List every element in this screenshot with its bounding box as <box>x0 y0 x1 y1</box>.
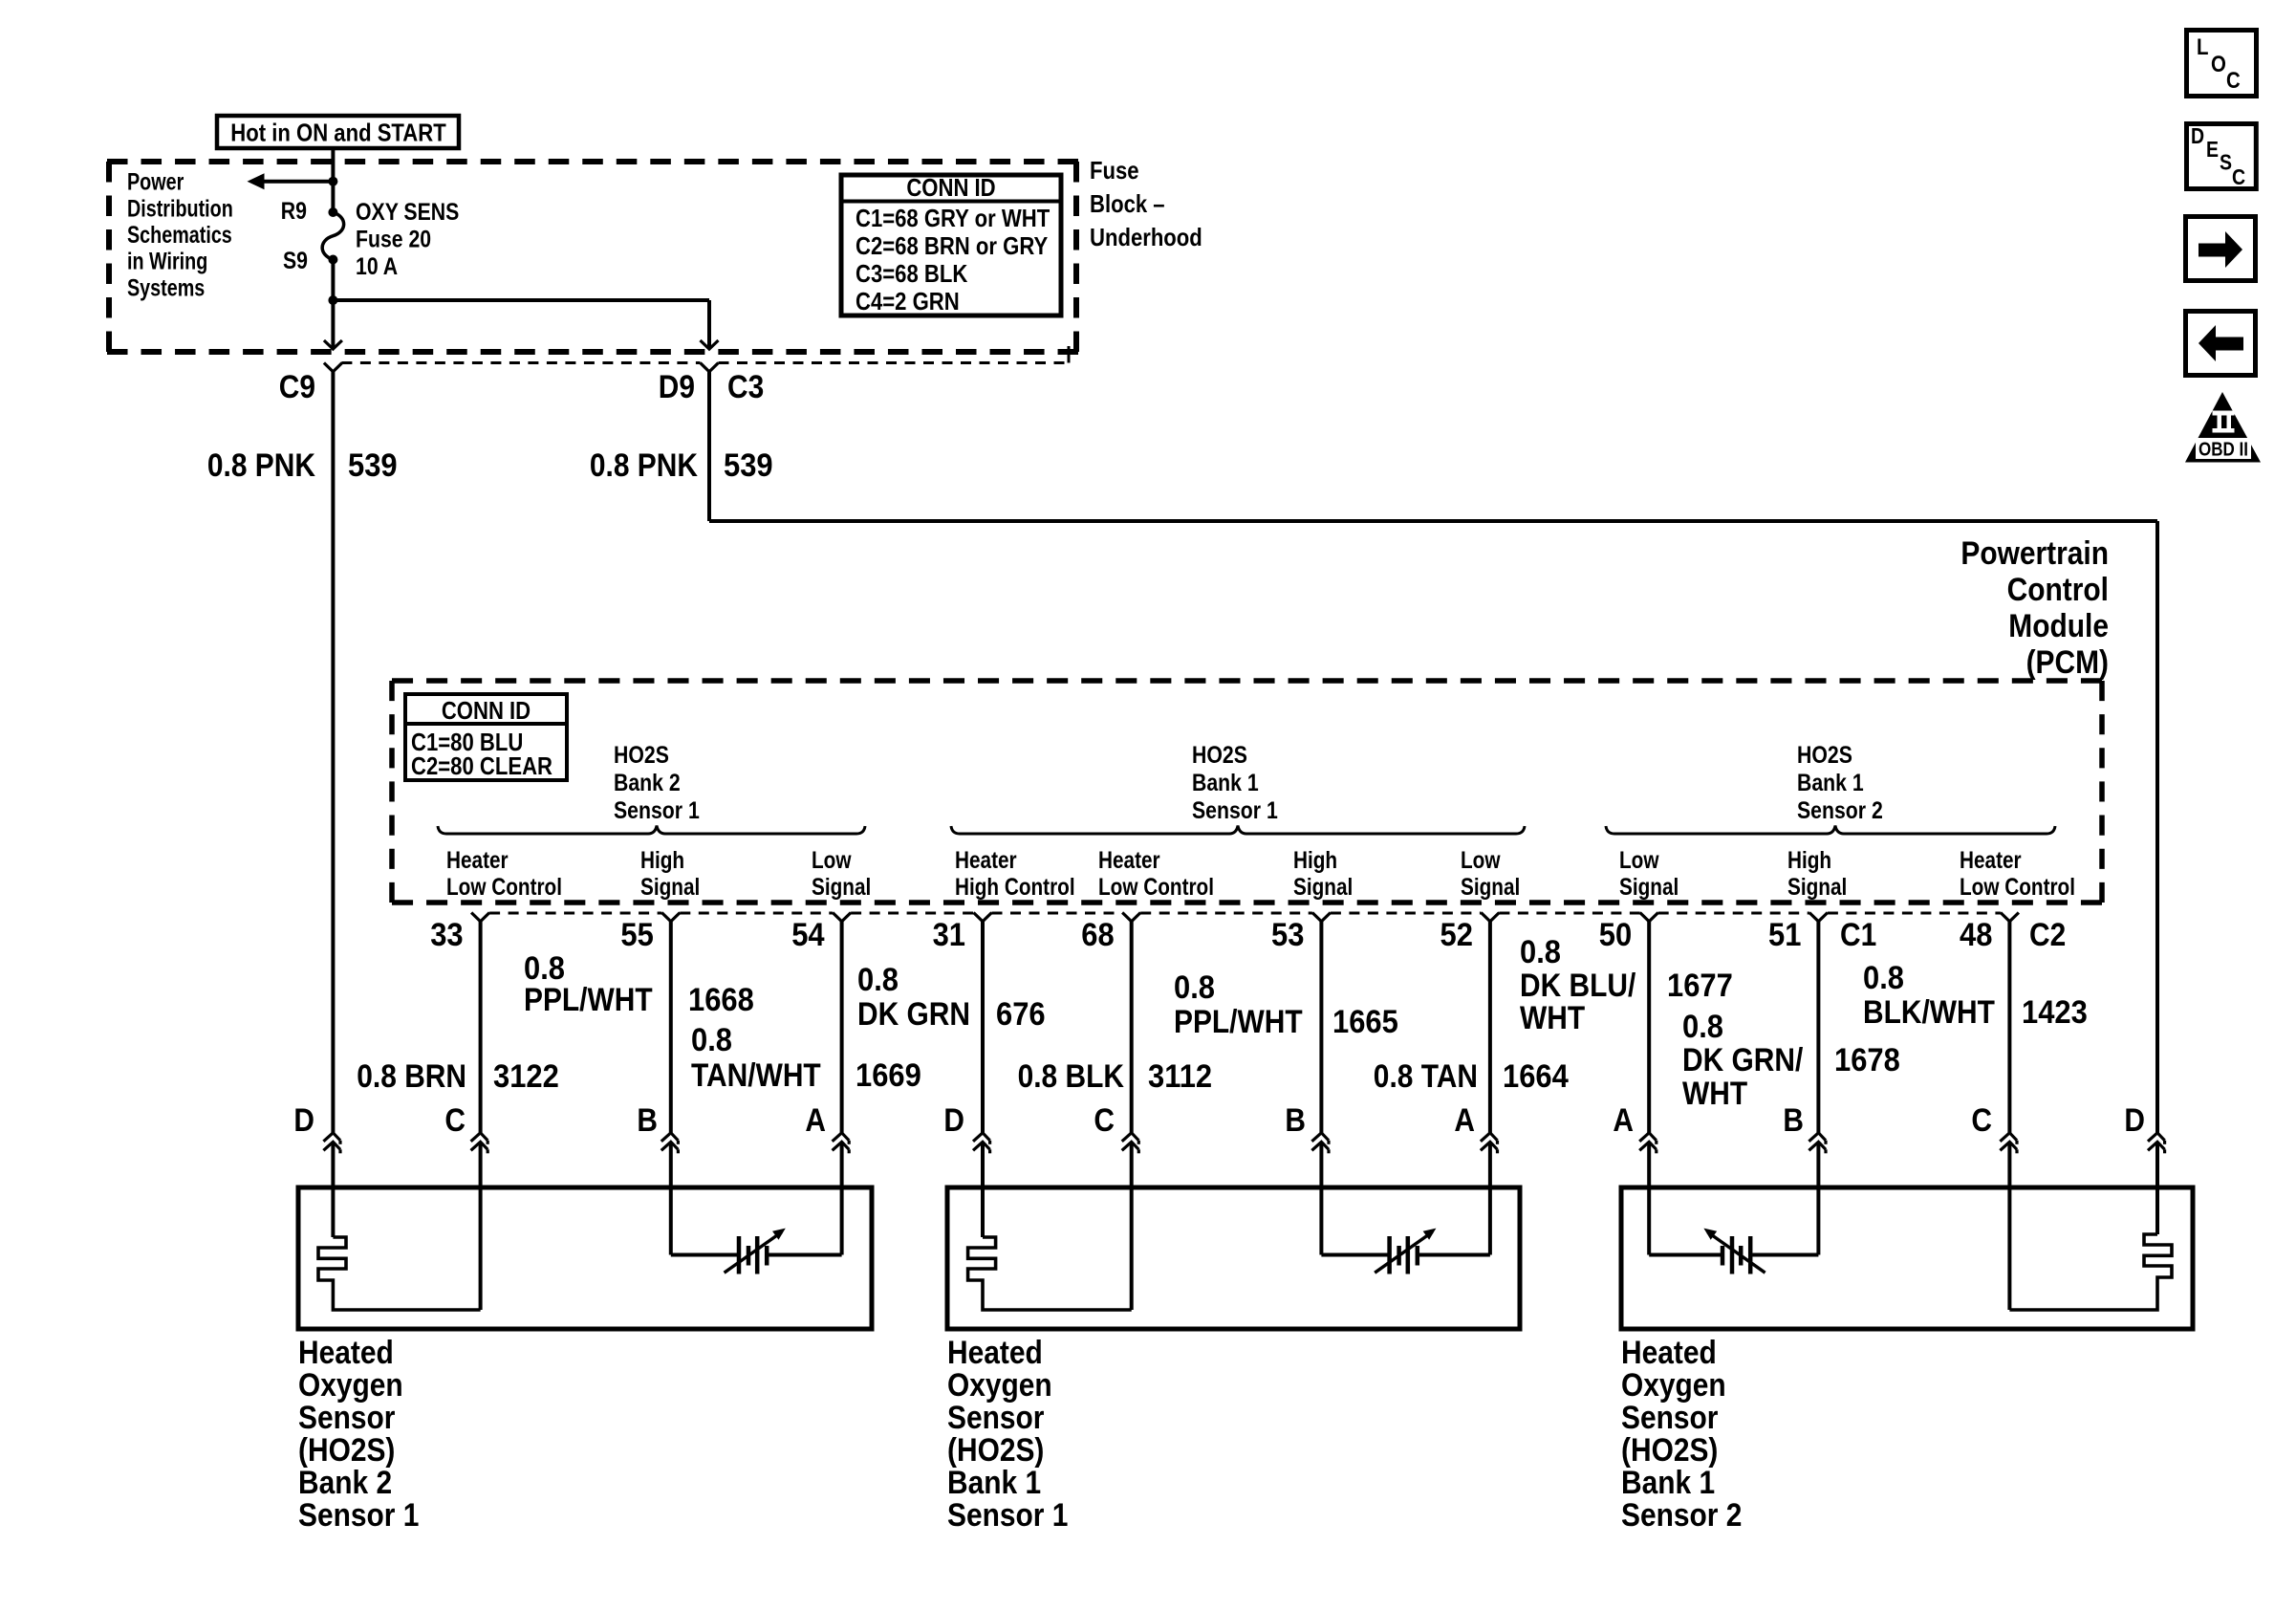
svg-text:C4=2 GRN: C4=2 GRN <box>856 287 960 316</box>
svg-text:Heated: Heated <box>947 1335 1043 1371</box>
svg-text:Heater: Heater <box>955 847 1017 874</box>
svg-text:Sensor 2: Sensor 2 <box>1797 797 1883 824</box>
svg-text:Bank 2: Bank 2 <box>298 1465 392 1501</box>
svg-text:HO2S: HO2S <box>1797 742 1852 769</box>
svg-text:C: C <box>1971 1102 1992 1139</box>
svg-text:53: 53 <box>1271 917 1304 953</box>
svg-text:WHT: WHT <box>1682 1076 1747 1112</box>
svg-text:Sensor 1: Sensor 1 <box>298 1497 419 1534</box>
svg-text:51: 51 <box>1768 917 1801 953</box>
svg-text:Heater: Heater <box>446 847 509 874</box>
svg-text:Bank 1: Bank 1 <box>1797 770 1864 796</box>
svg-text:Sensor 1: Sensor 1 <box>947 1497 1068 1534</box>
svg-text:0.8: 0.8 <box>857 962 899 998</box>
svg-text:Signal: Signal <box>640 874 700 901</box>
svg-text:D9: D9 <box>659 369 695 405</box>
svg-text:High: High <box>1787 847 1831 874</box>
svg-text:C: C <box>444 1102 466 1139</box>
svg-text:Low: Low <box>1461 847 1501 874</box>
svg-text:in Wiring: in Wiring <box>127 249 207 275</box>
svg-text:D: D <box>2124 1102 2145 1139</box>
svg-text:A: A <box>805 1102 826 1139</box>
svg-text:L: L <box>2197 34 2209 60</box>
svg-text:0.8 PNK: 0.8 PNK <box>207 447 315 484</box>
svg-text:Signal: Signal <box>1293 874 1353 901</box>
svg-text:3122: 3122 <box>493 1058 559 1095</box>
svg-text:1678: 1678 <box>1834 1042 1900 1078</box>
svg-text:Signal: Signal <box>1619 874 1679 901</box>
svg-text:C: C <box>2232 164 2245 189</box>
svg-text:Oxygen: Oxygen <box>298 1367 403 1404</box>
svg-text:OBD II: OBD II <box>2199 440 2248 461</box>
svg-text:C1=68 GRY or WHT: C1=68 GRY or WHT <box>856 204 1050 232</box>
svg-text:Sensor: Sensor <box>947 1400 1044 1436</box>
svg-text:Low Control: Low Control <box>446 874 562 901</box>
svg-text:539: 539 <box>348 447 398 484</box>
svg-text:B: B <box>637 1102 658 1139</box>
svg-text:DK GRN: DK GRN <box>857 996 970 1033</box>
svg-text:31: 31 <box>933 917 965 953</box>
svg-text:Bank 1: Bank 1 <box>1621 1465 1715 1501</box>
svg-text:0.8: 0.8 <box>691 1022 732 1058</box>
svg-text:54: 54 <box>791 917 824 953</box>
svg-text:Oxygen: Oxygen <box>1621 1367 1726 1404</box>
svg-text:52: 52 <box>1440 917 1473 953</box>
svg-text:Heated: Heated <box>1621 1335 1717 1371</box>
svg-text:Sensor 1: Sensor 1 <box>614 797 700 824</box>
svg-text:Block –: Block – <box>1090 189 1165 218</box>
svg-text:0.8: 0.8 <box>1682 1009 1723 1045</box>
svg-text:S: S <box>2220 150 2232 175</box>
svg-text:B: B <box>1285 1102 1306 1139</box>
svg-text:Sensor: Sensor <box>1621 1400 1718 1436</box>
svg-text:D: D <box>293 1102 314 1139</box>
svg-text:68: 68 <box>1081 917 1114 953</box>
svg-text:Signal: Signal <box>812 874 871 901</box>
svg-text:Low: Low <box>812 847 852 874</box>
svg-text:Sensor 1: Sensor 1 <box>1192 797 1278 824</box>
svg-text:High: High <box>1293 847 1337 874</box>
svg-text:0.8 BLK: 0.8 BLK <box>1018 1058 1125 1095</box>
svg-text:Fuse: Fuse <box>1090 156 1139 185</box>
svg-text:Signal: Signal <box>1461 874 1520 901</box>
svg-text:Low Control: Low Control <box>1098 874 1214 901</box>
svg-text:C9: C9 <box>279 369 315 405</box>
svg-text:C: C <box>1094 1102 1115 1139</box>
svg-text:B: B <box>1783 1102 1804 1139</box>
svg-text:Bank 1: Bank 1 <box>947 1465 1041 1501</box>
svg-text:Heated: Heated <box>298 1335 394 1371</box>
svg-text:1669: 1669 <box>856 1057 921 1094</box>
svg-text:C2=68 BRN or GRY: C2=68 BRN or GRY <box>856 231 1048 260</box>
svg-text:(HO2S): (HO2S) <box>947 1432 1044 1469</box>
svg-text:C3: C3 <box>727 369 764 405</box>
svg-text:DK BLU/: DK BLU/ <box>1520 968 1636 1004</box>
svg-text:C1: C1 <box>1840 917 1876 953</box>
svg-text:Signal: Signal <box>1787 874 1847 901</box>
svg-text:E: E <box>2206 137 2219 162</box>
svg-text:Heater: Heater <box>1960 847 2022 874</box>
svg-text:Control: Control <box>2007 572 2109 608</box>
svg-text:(HO2S): (HO2S) <box>1621 1432 1718 1469</box>
svg-text:C: C <box>2226 68 2241 94</box>
svg-text:Powertrain: Powertrain <box>1960 535 2109 572</box>
svg-text:S9: S9 <box>283 248 308 274</box>
svg-text:Low Control: Low Control <box>1960 874 2075 901</box>
svg-text:Module: Module <box>2008 608 2109 644</box>
svg-text:50: 50 <box>1599 917 1632 953</box>
svg-text:High: High <box>640 847 684 874</box>
svg-text:Systems: Systems <box>127 274 205 301</box>
svg-text:1677: 1677 <box>1667 968 1733 1004</box>
svg-text:Hot in ON and START: Hot in ON and START <box>230 119 445 147</box>
svg-text:48: 48 <box>1960 917 1992 953</box>
svg-text:(PCM): (PCM) <box>2026 644 2109 681</box>
svg-text:D: D <box>943 1102 964 1139</box>
svg-text:0.8: 0.8 <box>1863 960 1904 996</box>
svg-text:HO2S: HO2S <box>614 742 669 769</box>
svg-text:0.8 TAN: 0.8 TAN <box>1374 1058 1478 1095</box>
svg-text:Power: Power <box>127 169 184 196</box>
svg-text:Bank 2: Bank 2 <box>614 770 681 796</box>
svg-text:TAN/WHT: TAN/WHT <box>691 1057 821 1094</box>
svg-text:3112: 3112 <box>1148 1058 1212 1095</box>
svg-text:539: 539 <box>724 447 773 484</box>
svg-text:0.8: 0.8 <box>1520 934 1561 970</box>
svg-text:0.8: 0.8 <box>1174 969 1215 1006</box>
svg-text:55: 55 <box>620 917 653 953</box>
svg-text:Bank 1: Bank 1 <box>1192 770 1259 796</box>
svg-text:D: D <box>2191 123 2204 148</box>
svg-text:676: 676 <box>996 996 1046 1033</box>
svg-text:O: O <box>2211 52 2226 77</box>
svg-text:C2=80 CLEAR: C2=80 CLEAR <box>411 751 552 780</box>
svg-text:HO2S: HO2S <box>1192 742 1247 769</box>
svg-text:CONN ID: CONN ID <box>442 696 531 725</box>
svg-text:DK GRN/: DK GRN/ <box>1682 1042 1804 1078</box>
svg-text:Oxygen: Oxygen <box>947 1367 1052 1404</box>
svg-text:1665: 1665 <box>1332 1004 1398 1040</box>
svg-text:C3=68 BLK: C3=68 BLK <box>856 259 967 288</box>
svg-text:33: 33 <box>430 917 463 953</box>
svg-text:1664: 1664 <box>1503 1058 1569 1095</box>
svg-text:Distribution: Distribution <box>127 195 233 222</box>
svg-text:WHT: WHT <box>1520 1000 1585 1036</box>
svg-text:(HO2S): (HO2S) <box>298 1432 395 1469</box>
svg-text:Sensor: Sensor <box>298 1400 395 1436</box>
svg-text:Underhood: Underhood <box>1090 223 1202 251</box>
svg-text:Low: Low <box>1619 847 1659 874</box>
svg-text:Schematics: Schematics <box>127 222 232 249</box>
svg-text:1423: 1423 <box>2022 994 2088 1031</box>
svg-text:C2: C2 <box>2029 917 2066 953</box>
svg-text:Heater: Heater <box>1098 847 1160 874</box>
svg-text:Sensor 2: Sensor 2 <box>1621 1497 1742 1534</box>
svg-text:1668: 1668 <box>688 982 754 1018</box>
svg-text:A: A <box>1613 1102 1634 1139</box>
svg-text:OXY SENS: OXY SENS <box>356 199 459 226</box>
svg-text:0.8 BRN: 0.8 BRN <box>357 1058 466 1095</box>
svg-text:CONN ID: CONN ID <box>906 173 995 202</box>
svg-text:PPL/WHT: PPL/WHT <box>1174 1004 1303 1040</box>
svg-text:0.8 PNK: 0.8 PNK <box>590 447 698 484</box>
svg-text:A: A <box>1454 1102 1475 1139</box>
svg-text:10 A: 10 A <box>356 253 398 280</box>
svg-text:High Control: High Control <box>955 874 1075 901</box>
svg-text:R9: R9 <box>281 198 307 225</box>
svg-text:PPL/WHT: PPL/WHT <box>524 982 653 1018</box>
svg-text:Fuse 20: Fuse 20 <box>356 227 431 253</box>
svg-text:BLK/WHT: BLK/WHT <box>1863 994 1995 1031</box>
